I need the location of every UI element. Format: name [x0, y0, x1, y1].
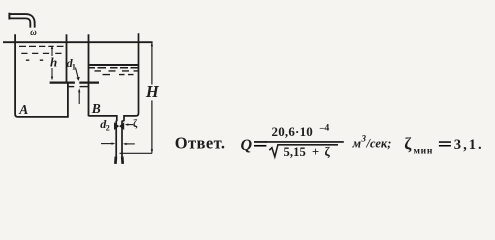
svg-text:H: H: [145, 82, 160, 101]
svg-text:1: 1: [72, 63, 76, 72]
svg-text:A: A: [18, 102, 28, 117]
svg-text:2: 2: [106, 124, 110, 133]
svg-text:/сек;: /сек;: [366, 136, 392, 150]
svg-text:ζ: ζ: [325, 145, 331, 159]
svg-text:ζ: ζ: [133, 119, 138, 130]
svg-text:мин: мин: [414, 147, 434, 157]
svg-text:B: B: [91, 101, 101, 116]
svg-text:ω: ω: [30, 27, 37, 37]
svg-text:ζ: ζ: [404, 134, 412, 153]
svg-text:м: м: [352, 136, 362, 150]
svg-text:5,15: 5,15: [284, 145, 306, 159]
svg-text:+: +: [312, 145, 319, 159]
svg-text:3,1.: 3,1.: [454, 137, 484, 153]
svg-text:–4: –4: [319, 124, 330, 134]
svg-text:Q: Q: [241, 137, 253, 154]
svg-text:Ответ.: Ответ.: [175, 134, 226, 153]
svg-text:20,6·10: 20,6·10: [272, 124, 314, 139]
svg-text:h: h: [50, 54, 57, 69]
